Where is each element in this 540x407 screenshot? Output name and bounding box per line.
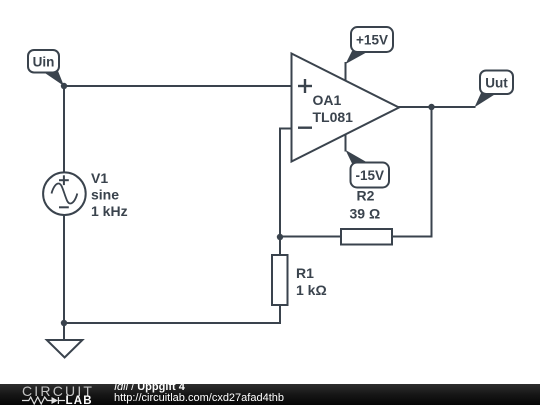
- pin op-amp V+: [345, 63, 347, 81]
- flag Uin: [28, 50, 64, 86]
- flag Uut: [475, 71, 514, 108]
- svg-text:+15V: +15V: [356, 33, 388, 48]
- wire R1 top to minus-node junction: [279, 237, 281, 255]
- svg-text:OA1: OA1: [313, 92, 342, 108]
- wire V1 bottom to ground junction: [63, 215, 65, 323]
- label OA1 TL081: [313, 92, 354, 125]
- op-amp OA1: [292, 54, 400, 162]
- footer url: [114, 393, 284, 404]
- svg-text:Uin: Uin: [33, 55, 55, 70]
- wire R2 right up to output junction: [392, 107, 432, 237]
- svg-text:R2: R2: [357, 188, 375, 204]
- node Uin junction: [61, 83, 67, 89]
- node ground junction: [61, 320, 67, 326]
- resistor R2: [341, 229, 392, 245]
- svg-text:TL081: TL081: [313, 109, 354, 125]
- svg-text:sine: sine: [91, 187, 119, 203]
- wire op-amp output to Uut tail: [399, 106, 475, 108]
- ground: [47, 323, 83, 358]
- svg-text:1 kHz: 1 kHz: [91, 203, 128, 219]
- logo resistor-diode wire: [22, 397, 65, 404]
- svg-text:R1: R1: [296, 265, 314, 281]
- label V1 sine 1 kHz: [91, 170, 128, 219]
- node inverting-input junction: [277, 234, 283, 240]
- CircuitLab logo: [22, 385, 94, 398]
- footer title: [114, 382, 185, 393]
- svg-text:1 kΩ: 1 kΩ: [296, 282, 327, 298]
- wire Uin node to V1 top: [63, 86, 65, 173]
- flag +15V: [346, 27, 394, 64]
- wire junction to R2 left: [280, 236, 341, 238]
- voltage source V1: [43, 172, 86, 215]
- footer bar: [0, 384, 540, 405]
- wire Uin node to op-amp + input: [64, 85, 292, 87]
- svg-text:39 Ω: 39 Ω: [350, 206, 381, 222]
- label R2 39 Ohm: [350, 188, 381, 222]
- wire ground junction to R1 bottom corner: [64, 305, 280, 323]
- svg-text:Uut: Uut: [485, 76, 508, 91]
- svg-text:-15V: -15V: [356, 168, 385, 183]
- svg-text:V1: V1: [91, 170, 108, 186]
- pin op-amp V-: [345, 134, 347, 150]
- label R1 1 kOhm: [296, 265, 327, 298]
- wire junction up to op-amp minus input: [280, 129, 292, 238]
- resistor R1: [272, 255, 288, 305]
- flag -15V: [346, 150, 390, 188]
- node output junction: [428, 104, 434, 110]
